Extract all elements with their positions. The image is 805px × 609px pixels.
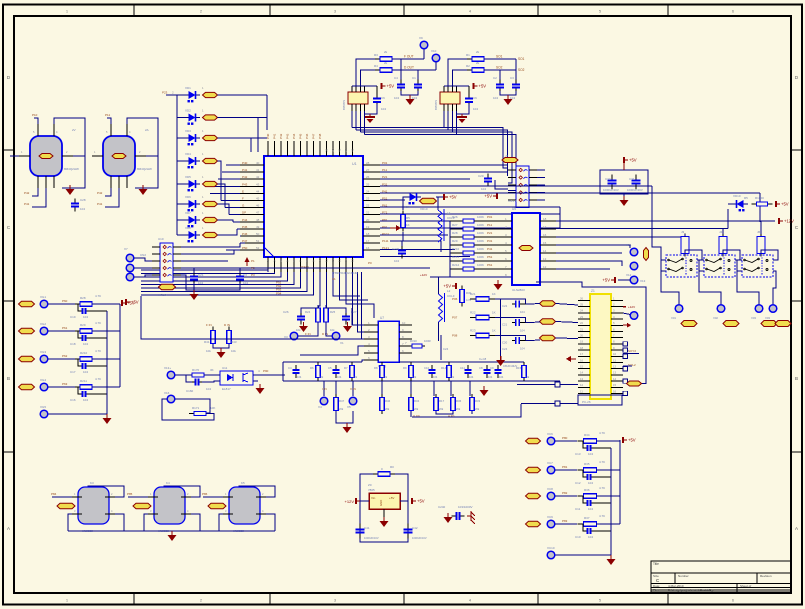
svg-text:1000UF/16V: 1000UF/16V bbox=[412, 536, 427, 540]
svg-text:P61: P61 bbox=[487, 263, 493, 267]
svg-text:48: 48 bbox=[256, 218, 260, 222]
zone tick top bbox=[537, 5, 539, 17]
svg-text:1000UF/16V: 1000UF/16V bbox=[627, 188, 643, 192]
resistor R24 bbox=[316, 305, 321, 325]
svg-text:2k: 2k bbox=[476, 50, 480, 54]
wire cap row 2 bbox=[522, 340, 526, 342]
svg-text:C4: C4 bbox=[394, 76, 398, 80]
capacitor C6 M1 bbox=[373, 94, 381, 106]
svg-text:C6: C6 bbox=[381, 96, 385, 100]
wire M2 res left bbox=[448, 59, 467, 86]
svg-text:R1000: R1000 bbox=[755, 196, 764, 200]
svg-text:18: 18 bbox=[366, 232, 370, 236]
svg-text:4.7K: 4.7K bbox=[599, 486, 605, 490]
ground lower rs bbox=[343, 423, 352, 433]
zone tick left bbox=[3, 300, 14, 302]
wire K4 left in bbox=[128, 496, 148, 498]
wire cap row 1 bbox=[522, 322, 526, 324]
optocoupler U11 bbox=[220, 371, 253, 385]
svg-text:C240: C240 bbox=[438, 505, 446, 509]
net label X29 label bbox=[526, 521, 541, 526]
svg-text:K5: K5 bbox=[241, 481, 245, 485]
capacitor C31 bbox=[632, 175, 641, 190]
svg-text:R28: R28 bbox=[452, 231, 458, 235]
resistor R33 bbox=[470, 394, 475, 414]
capacitor C20 bbox=[484, 174, 492, 187]
power arrow P bbox=[390, 225, 401, 231]
svg-text:P08: P08 bbox=[452, 334, 458, 338]
wire opto out bbox=[253, 374, 285, 376]
terminal XT3 bbox=[126, 273, 134, 281]
svg-text:P47: P47 bbox=[242, 239, 248, 243]
wire C24 drop bbox=[440, 335, 442, 360]
svg-text:100K: 100K bbox=[477, 263, 484, 267]
svg-text:XG1.9: XG1.9 bbox=[158, 293, 167, 297]
resistor M2 R-bot bbox=[467, 68, 489, 73]
svg-text:100K: 100K bbox=[477, 239, 484, 243]
svg-text:P47: P47 bbox=[312, 133, 316, 139]
svg-text:C13: C13 bbox=[575, 452, 581, 456]
resistor R29 bbox=[75, 329, 97, 334]
svg-text:+5V: +5V bbox=[387, 84, 395, 89]
svg-text:XC9: XC9 bbox=[547, 515, 553, 519]
svg-text:2k: 2k bbox=[476, 61, 480, 65]
relay K1 pins bbox=[19, 124, 73, 188]
svg-text:P60: P60 bbox=[62, 299, 68, 303]
net label X22 label bbox=[19, 328, 35, 333]
svg-text:+12V: +12V bbox=[420, 273, 427, 277]
LED XD4 bbox=[184, 157, 200, 168]
svg-text:XD8: XD8 bbox=[185, 226, 191, 230]
svg-text:P42: P42 bbox=[279, 133, 283, 139]
svg-text:XC7: XC7 bbox=[547, 461, 553, 465]
U5 body bbox=[512, 213, 540, 285]
svg-text:P83: P83 bbox=[562, 519, 568, 523]
regulator 7805 body bbox=[369, 493, 400, 509]
svg-text:C160: C160 bbox=[186, 389, 194, 393]
svg-text:B0505S: B0505S bbox=[342, 100, 346, 110]
ground U5 bbox=[494, 280, 503, 290]
wire left rails bbox=[44, 311, 107, 414]
wire X10 drop bbox=[435, 62, 437, 70]
zone tick right bbox=[791, 451, 802, 453]
inductor L2 bbox=[439, 294, 443, 322]
capacitor C11 bbox=[465, 365, 472, 378]
svg-text:23: 23 bbox=[366, 197, 370, 201]
svg-text:R14: R14 bbox=[441, 366, 447, 370]
ground 7805 bbox=[380, 517, 389, 527]
wire M1 bottom gnd bbox=[365, 104, 377, 114]
LED XD2 bbox=[184, 114, 200, 125]
svg-text:12: 12 bbox=[613, 365, 617, 369]
ground cap bank bbox=[620, 196, 629, 206]
ground opto bbox=[256, 384, 265, 394]
LED XD10 group bbox=[732, 200, 748, 211]
svg-text:P86: P86 bbox=[202, 492, 208, 496]
svg-text:X14: X14 bbox=[626, 243, 632, 247]
terminal X13 bbox=[630, 276, 638, 284]
svg-text:R29: R29 bbox=[80, 323, 86, 327]
svg-text:P41: P41 bbox=[24, 202, 30, 206]
svg-text:R29: R29 bbox=[452, 239, 458, 243]
wire XD10 left bbox=[728, 203, 732, 205]
relay K3 hat wire bbox=[88, 486, 124, 497]
svg-text:R5: R5 bbox=[406, 216, 410, 220]
resistor R46 bbox=[380, 394, 385, 414]
LED XD9 bbox=[405, 193, 421, 204]
svg-text:P11: P11 bbox=[487, 223, 492, 227]
relay K4 hat wire bbox=[164, 486, 200, 497]
svg-text:P45: P45 bbox=[299, 133, 303, 139]
svg-text:103/1000V: 103/1000V bbox=[458, 505, 473, 509]
resistor R25 bbox=[324, 305, 329, 325]
wire M2 top rail bbox=[444, 85, 469, 87]
terminal XT1 bbox=[126, 254, 134, 262]
svg-text:51: 51 bbox=[256, 239, 260, 243]
resistor R170 bbox=[187, 373, 209, 377]
svg-text:R2: R2 bbox=[466, 64, 470, 68]
capacitor C6 M2 bbox=[465, 94, 473, 106]
svg-text:EL817: EL817 bbox=[222, 387, 231, 391]
resistor R34 bbox=[578, 439, 603, 444]
net label NETLBL2 bbox=[203, 115, 218, 120]
svg-text:T89C51RD2-60JM: T89C51RD2-60JM bbox=[333, 271, 359, 275]
wire long runs right bbox=[517, 384, 578, 386]
svg-text:XG1.8: XG1.8 bbox=[508, 199, 517, 203]
svg-text:SO2: SO2 bbox=[518, 68, 525, 72]
svg-text:R28: R28 bbox=[80, 296, 86, 300]
svg-text:XG3: XG3 bbox=[40, 350, 46, 354]
wire LED rows 1-3 vertical drops bbox=[266, 95, 268, 130]
wire row cap branch bbox=[78, 359, 80, 366]
net label U5 label bbox=[519, 246, 533, 251]
wire row cap branch bbox=[583, 496, 585, 503]
wire X15 stub bbox=[623, 313, 630, 315]
svg-text:R37: R37 bbox=[584, 516, 590, 520]
U5 right pins bbox=[540, 217, 556, 269]
MCU U1 body bbox=[264, 156, 363, 257]
svg-text:104: 104 bbox=[381, 107, 386, 111]
svg-text:Vin: Vin bbox=[371, 496, 376, 500]
svg-text:104: 104 bbox=[337, 375, 342, 379]
relay K1 body bbox=[30, 136, 62, 176]
svg-text:11: 11 bbox=[613, 358, 616, 362]
svg-text:26: 26 bbox=[366, 175, 370, 179]
power arrow U6 right bbox=[623, 323, 631, 328]
wire K5 bottom loop bbox=[219, 514, 275, 531]
svg-text:10k: 10k bbox=[231, 349, 236, 353]
svg-text:R6: R6 bbox=[310, 366, 314, 370]
svg-text:R33: R33 bbox=[475, 399, 481, 403]
svg-text:1K: 1K bbox=[492, 329, 496, 333]
svg-text:104: 104 bbox=[588, 535, 593, 539]
svg-text:41: 41 bbox=[256, 168, 260, 172]
resistor R17 bbox=[434, 394, 439, 414]
wire RL3 contacts loop bbox=[737, 260, 742, 271]
wire SOL2 bbox=[623, 365, 632, 367]
svg-text:104: 104 bbox=[493, 96, 498, 100]
svg-text:+12V: +12V bbox=[784, 219, 794, 224]
svg-text:15: 15 bbox=[613, 383, 617, 387]
svg-text:U5: U5 bbox=[512, 207, 516, 211]
wire LED row 1 out bbox=[218, 94, 268, 96]
svg-text:12: 12 bbox=[580, 383, 584, 387]
svg-text:XC8: XC8 bbox=[547, 487, 553, 491]
net label X24 label bbox=[19, 384, 35, 389]
svg-text:R210: R210 bbox=[80, 351, 88, 355]
zone tick top bbox=[133, 5, 135, 17]
svg-text:104: 104 bbox=[499, 375, 504, 379]
ground C240 left bbox=[444, 513, 453, 523]
resistor R35 bbox=[578, 468, 603, 473]
svg-text:X12: X12 bbox=[626, 273, 632, 277]
capacitor C8 bbox=[484, 365, 491, 378]
svg-text:39: 39 bbox=[325, 148, 329, 152]
svg-text:J7: J7 bbox=[505, 154, 509, 158]
wire cluster tops bbox=[301, 308, 318, 313]
wire row to rails bbox=[92, 386, 120, 388]
svg-text:104: 104 bbox=[198, 281, 203, 285]
svg-text:10k: 10k bbox=[450, 375, 455, 379]
svg-text:R36: R36 bbox=[456, 399, 462, 403]
svg-text:23: 23 bbox=[580, 315, 584, 319]
zone tick right bbox=[791, 300, 802, 302]
capacitor C42 bbox=[404, 524, 413, 539]
net label NETLBL5 bbox=[203, 181, 218, 186]
U7 right pins bbox=[399, 321, 412, 353]
svg-text:R21: R21 bbox=[470, 292, 476, 296]
wire K4 bottom loop bbox=[144, 514, 200, 531]
svg-text:1K: 1K bbox=[406, 223, 410, 227]
resistor RL2 drive R bbox=[719, 234, 727, 257]
svg-text:7805: 7805 bbox=[368, 488, 375, 492]
zone tick right bbox=[791, 149, 802, 151]
wire mid row 0 to cap bbox=[495, 299, 526, 304]
svg-text:P41: P41 bbox=[273, 133, 277, 139]
svg-text:X5: X5 bbox=[347, 405, 351, 409]
svg-text:100K: 100K bbox=[477, 223, 484, 227]
net label RL1 termlabel bbox=[681, 321, 697, 327]
resistor R47 bbox=[334, 394, 339, 414]
svg-text:20k: 20k bbox=[475, 407, 480, 411]
svg-text:17: 17 bbox=[580, 352, 584, 356]
svg-text:B: B bbox=[795, 376, 798, 381]
svg-text:J3: J3 bbox=[681, 230, 685, 234]
power +5V mid bbox=[443, 283, 456, 289]
wire U7 left big loop bbox=[352, 308, 364, 325]
svg-text:XD1: XD1 bbox=[185, 86, 191, 90]
svg-text:104: 104 bbox=[469, 375, 474, 379]
resistor R171 bbox=[189, 412, 211, 416]
svg-text:R27: R27 bbox=[452, 223, 458, 227]
svg-text:13: 13 bbox=[338, 258, 342, 262]
wire J1 left cap bbox=[495, 180, 508, 189]
left rows bus into page bbox=[140, 281, 142, 299]
svg-text:19: 19 bbox=[366, 225, 370, 229]
svg-text:14: 14 bbox=[580, 371, 584, 375]
svg-text:X9: X9 bbox=[419, 36, 423, 40]
svg-text:P0: P0 bbox=[368, 261, 372, 265]
svg-text:R17: R17 bbox=[439, 399, 445, 403]
svg-text:U1: U1 bbox=[352, 162, 357, 166]
svg-text:CN2: CN2 bbox=[140, 253, 146, 257]
svg-text:A: A bbox=[7, 526, 10, 531]
svg-text:XD10: XD10 bbox=[733, 194, 741, 198]
svg-text:104: 104 bbox=[520, 310, 525, 314]
resistor R210 bbox=[75, 357, 97, 362]
svg-text:XD6: XD6 bbox=[185, 195, 191, 199]
terminal X1 bbox=[332, 332, 340, 340]
svg-text:15: 15 bbox=[351, 258, 355, 262]
wire LED rail vertical bbox=[166, 95, 177, 235]
svg-text:D IN: D IN bbox=[322, 332, 328, 336]
wire U5 out runs bbox=[556, 221, 775, 269]
resistor R23 bbox=[470, 333, 495, 338]
resistor R14 bbox=[447, 362, 452, 381]
wire X9 drop bbox=[423, 49, 425, 59]
terminal X22 bbox=[40, 327, 48, 335]
svg-text:Revision: Revision bbox=[760, 574, 772, 578]
capacitor C10 bbox=[585, 528, 594, 534]
terminal X15 bbox=[630, 312, 638, 320]
ground C27 bbox=[343, 322, 352, 332]
svg-text:100K: 100K bbox=[477, 247, 484, 251]
svg-text:20k: 20k bbox=[414, 407, 419, 411]
svg-text:R25: R25 bbox=[330, 310, 336, 314]
svg-text:XD5: XD5 bbox=[185, 175, 191, 179]
capacitor C4 bbox=[293, 365, 300, 378]
wire mid row 1 to cap bbox=[495, 318, 526, 323]
svg-text:P41: P41 bbox=[242, 168, 248, 172]
net label X28 label bbox=[526, 493, 541, 498]
svg-text:50: 50 bbox=[256, 232, 260, 236]
svg-text:17: 17 bbox=[366, 239, 370, 243]
svg-text:XG1: XG1 bbox=[40, 295, 46, 299]
svg-text:P84: P84 bbox=[51, 492, 57, 496]
capacitor C12 bbox=[585, 474, 594, 480]
svg-text:2V: 2V bbox=[72, 128, 76, 132]
svg-text:R34: R34 bbox=[414, 399, 420, 403]
resistor M2 R-top bbox=[467, 57, 489, 62]
wire XD9 left drop bbox=[403, 197, 405, 210]
wire M1 cap drops bbox=[400, 59, 402, 81]
terminal X12 bbox=[630, 262, 638, 270]
wire U6 left stubs bbox=[556, 304, 579, 339]
zone tick bottom bbox=[269, 593, 271, 605]
capacitor C3b bbox=[236, 272, 244, 285]
svg-text:10k: 10k bbox=[206, 349, 211, 353]
wire K3 bottom loop bbox=[68, 514, 124, 531]
wire LED row 7 bbox=[177, 219, 185, 221]
resistor R15 bbox=[522, 362, 527, 381]
svg-text:26: 26 bbox=[580, 296, 584, 300]
relay K5 body bbox=[229, 487, 260, 524]
resistor R9 bbox=[409, 362, 414, 381]
svg-text:13: 13 bbox=[543, 257, 547, 261]
power +5V J1 bbox=[484, 193, 497, 199]
wire row cap branch bbox=[583, 470, 585, 477]
capacitor bank C30 C31 bbox=[600, 170, 648, 194]
power +5V XD10 bbox=[776, 201, 789, 207]
LED XD6 bbox=[184, 200, 200, 211]
svg-text:C10: C10 bbox=[424, 366, 430, 370]
svg-text:+5V: +5V bbox=[629, 158, 637, 163]
svg-text:XG2: XG2 bbox=[40, 322, 46, 326]
U6 right no-connect boxes bbox=[623, 342, 627, 396]
capacitor C160 bbox=[192, 379, 203, 386]
svg-text:4.7K: 4.7K bbox=[599, 431, 605, 435]
net label SIG2 bbox=[540, 319, 556, 324]
svg-text:104: 104 bbox=[481, 187, 486, 191]
wire R171 right bbox=[206, 414, 214, 421]
svg-text:100R: 100R bbox=[424, 339, 431, 343]
svg-text:P43: P43 bbox=[242, 182, 248, 186]
wire row to rails bbox=[92, 358, 120, 360]
relay K4 pin stubs bbox=[148, 497, 191, 514]
terminal RL1 terminal bbox=[675, 305, 683, 313]
U1 left pin names bbox=[242, 161, 260, 250]
resistor R34 bbox=[409, 394, 414, 414]
svg-text:104: 104 bbox=[433, 375, 438, 379]
zone tick bottom bbox=[667, 593, 669, 605]
wire row cap branch bbox=[583, 441, 585, 448]
net label X27 label bbox=[526, 467, 541, 472]
svg-text:46: 46 bbox=[256, 204, 260, 208]
wire K1 loop bbox=[34, 118, 38, 124]
svg-text:14: 14 bbox=[613, 377, 617, 381]
wire LED row 2 out bbox=[218, 117, 268, 119]
svg-text:10k: 10k bbox=[383, 375, 388, 379]
wire U6 outer loop bbox=[536, 282, 646, 384]
wire C26 gnd stub bbox=[300, 321, 302, 324]
wire row cap branch bbox=[78, 331, 80, 338]
capacitor C21 bbox=[512, 319, 523, 326]
U1 top pin names bbox=[266, 133, 355, 152]
capacitor C3 bbox=[512, 80, 520, 93]
ground mid rows rail bbox=[496, 356, 505, 366]
svg-text:104: 104 bbox=[83, 315, 88, 319]
svg-text:22: 22 bbox=[580, 321, 584, 325]
svg-text:D OUT: D OUT bbox=[404, 66, 414, 70]
svg-text:P61: P61 bbox=[62, 326, 68, 330]
svg-text:File:: File: bbox=[653, 588, 659, 592]
svg-text:P82: P82 bbox=[562, 491, 568, 495]
capacitor C13 bbox=[585, 445, 594, 451]
svg-text:P44: P44 bbox=[292, 133, 296, 139]
svg-text:P111: P111 bbox=[382, 239, 389, 243]
capacitor C21 bbox=[190, 272, 198, 285]
resistor R310 bbox=[409, 344, 425, 348]
wire horizontal bundle bbox=[352, 128, 516, 191]
resistors R26-R32 bbox=[450, 215, 512, 271]
capacitor C22 bbox=[512, 301, 523, 308]
svg-text:DP: DP bbox=[242, 211, 246, 215]
net label K2 label bbox=[112, 154, 126, 159]
relay RL2 contact box bbox=[704, 255, 735, 277]
svg-text:R47: R47 bbox=[339, 399, 345, 403]
LED XD8 bbox=[184, 231, 200, 242]
terminal X13b bbox=[167, 371, 175, 379]
svg-text:14: 14 bbox=[344, 258, 348, 262]
svg-text:4.7K: 4.7K bbox=[95, 294, 101, 298]
net label X26 label bbox=[526, 438, 541, 443]
wire U1 right long runs bbox=[380, 165, 760, 257]
zone tick bottom bbox=[537, 593, 539, 605]
wire row cap branch bbox=[583, 524, 585, 531]
wire M2 cap drops bbox=[499, 70, 501, 81]
svg-text:P42: P42 bbox=[24, 191, 30, 195]
svg-text:10k: 10k bbox=[330, 328, 335, 332]
